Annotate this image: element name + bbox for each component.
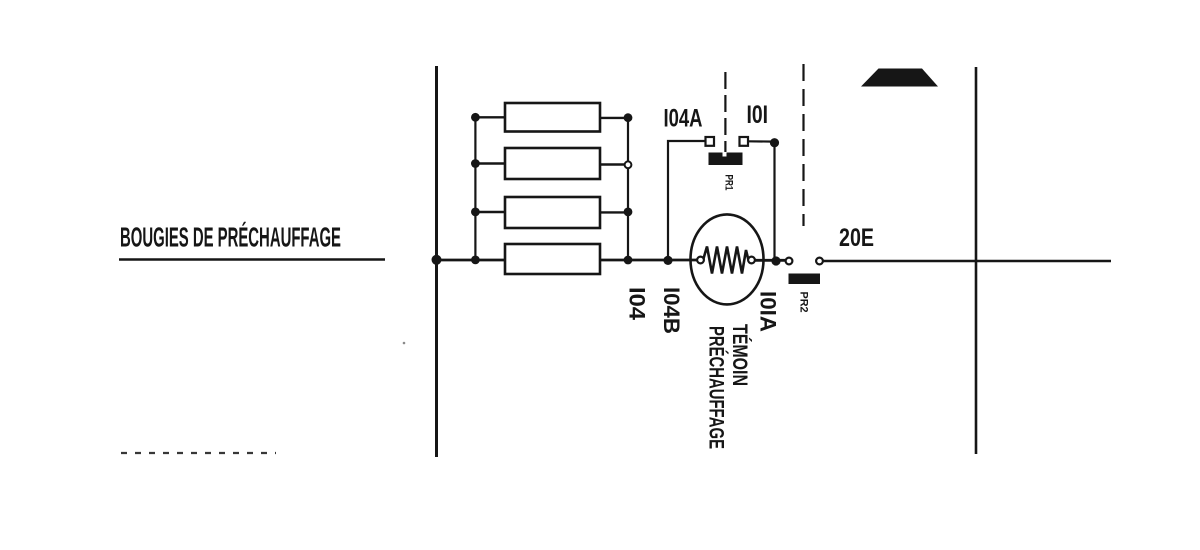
junction dot lamp branch right <box>771 256 780 265</box>
junction dot lamp branch left <box>663 256 672 265</box>
svg-text:PR1: PR1 <box>723 175 735 191</box>
terminal ring lamp right <box>748 257 755 264</box>
terminal ring lamp left <box>697 257 704 264</box>
glow plug resistor 3 <box>475 197 628 228</box>
svg-text:20E: 20E <box>839 224 874 252</box>
svg-text:I04B: I04B <box>659 287 684 334</box>
junction dot right column bottom <box>624 256 633 265</box>
wire 20E to right edge <box>823 260 1111 263</box>
wire left connector column <box>474 117 476 260</box>
wire lamp branch left riser <box>668 141 705 260</box>
switch terminal 104A <box>706 137 715 146</box>
dashed link to switch 104A/101 <box>724 72 726 152</box>
junction dot left column plug1 <box>471 113 480 122</box>
glow plug resistor 2 <box>475 148 628 179</box>
switch terminal 101 <box>740 137 749 146</box>
wire lamp to connector 101A <box>754 259 786 262</box>
connector block PR2 <box>789 274 821 285</box>
glow plug resistor 4 <box>505 244 600 274</box>
wire faint dotted bottom left <box>121 452 276 454</box>
svg-text:BOUGIES DE PRÉCHAUFFAGE: BOUGIES DE PRÉCHAUFFAGE <box>120 222 341 253</box>
wire right connector column <box>627 118 629 261</box>
glow plug resistor 1 <box>475 103 628 132</box>
junction dot left column plug2 <box>471 159 480 168</box>
junction dot switch right <box>770 138 779 147</box>
wire lamp branch right riser <box>748 141 775 261</box>
terminal ring connector 20E right <box>816 258 823 265</box>
speck <box>403 342 406 345</box>
svg-text:I04A: I04A <box>664 105 703 133</box>
wire left feed segment <box>119 258 385 261</box>
svg-text:TÉMOIN: TÉMOIN <box>728 324 751 386</box>
wire main horizontal bus left part <box>435 259 698 262</box>
terminal ring connector 101A left <box>786 258 793 265</box>
wire right vertical line <box>975 67 978 454</box>
junction dot left column plug3 <box>471 208 480 217</box>
svg-text:PR2: PR2 <box>798 292 810 313</box>
terminal ring right column plug2 <box>625 161 632 168</box>
svg-text:PRÉCHAUFFAGE: PRÉCHAUFFAGE <box>705 326 728 449</box>
svg-text:I0IA: I0IA <box>756 291 781 332</box>
junction dot left column bottom <box>471 256 480 265</box>
arrow marker <box>861 69 938 87</box>
wire main vertical bus <box>435 66 438 457</box>
connector block PR1 <box>709 153 743 166</box>
lamp temoin prechauffage <box>691 214 764 304</box>
svg-text:I04: I04 <box>625 287 650 321</box>
junction dot right column plug1 <box>624 113 633 122</box>
dashed link to contact 20E <box>802 64 804 226</box>
junction dot bus / main wire <box>432 255 442 265</box>
junction dot right column plug3 <box>624 208 633 217</box>
svg-text:I0I: I0I <box>747 101 769 129</box>
